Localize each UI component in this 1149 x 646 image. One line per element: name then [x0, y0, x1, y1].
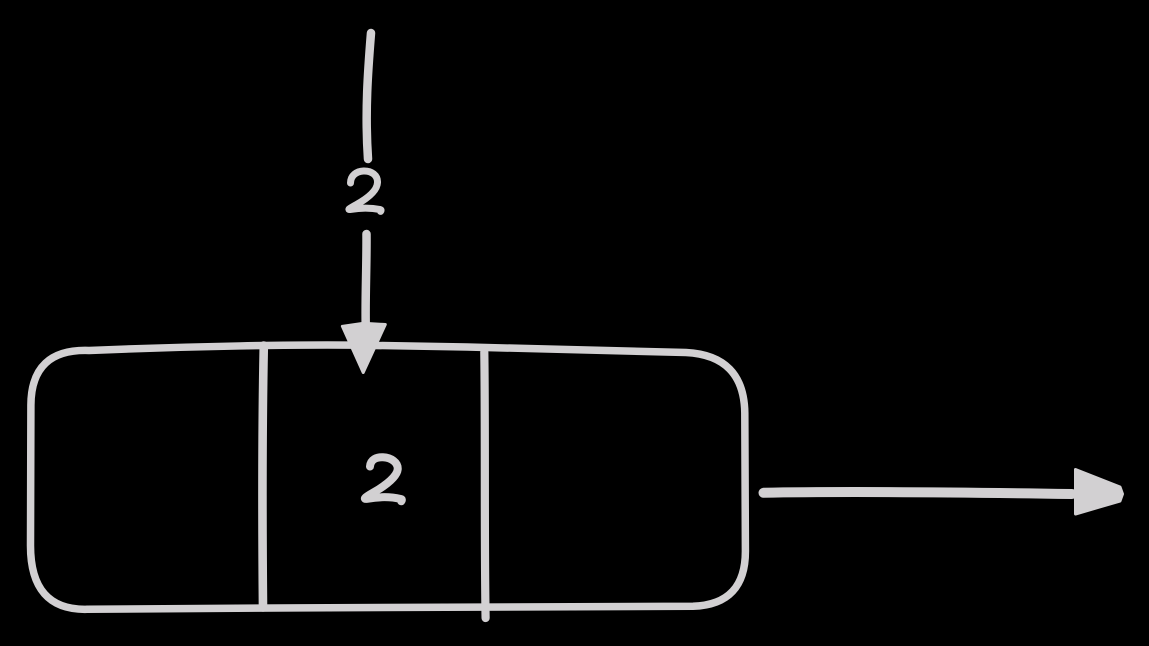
cell divider 2: [484, 352, 485, 618]
buffer box (rounded rectangle): [30, 345, 745, 609]
input arrow shaft upper segment: [367, 33, 371, 159]
output arrow shaft: [764, 492, 1073, 494]
input arrow label 2: [349, 171, 381, 211]
cell value 2: [365, 457, 402, 501]
input arrow shaft lower segment: [361, 234, 370, 328]
input arrowhead: [342, 323, 385, 372]
cell divider 1: [262, 346, 263, 608]
output arrowhead: [1076, 470, 1123, 515]
